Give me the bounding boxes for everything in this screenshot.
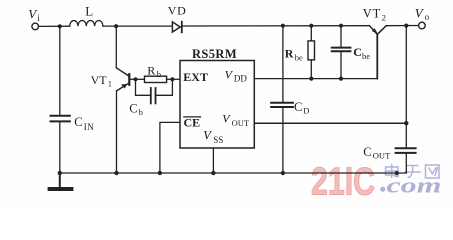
node junction at Cbe column <box>339 24 343 28</box>
node junction at CD column <box>281 24 285 28</box>
pin EXT label <box>183 70 208 84</box>
label Vi <box>28 6 40 23</box>
node junction ground right <box>395 171 399 175</box>
resistor Rbe <box>308 28 315 79</box>
node junction ground CIN <box>58 171 62 175</box>
svg-text:DD: DD <box>234 73 247 83</box>
node junction Rb left <box>133 77 137 81</box>
svg-text:VD: VD <box>168 3 187 17</box>
label CIN <box>74 115 94 132</box>
wire VOUT pin line to output column <box>254 122 406 124</box>
label L <box>85 4 93 19</box>
svg-text:RS5RM: RS5RM <box>192 47 237 61</box>
capacitor CIN <box>51 28 70 173</box>
diode VD <box>172 22 181 33</box>
svg-text:o: o <box>425 12 430 22</box>
svg-text:C: C <box>353 45 362 59</box>
wire rail: inductor to diode <box>103 25 172 27</box>
svg-text:VT: VT <box>91 73 108 87</box>
svg-text:be: be <box>295 53 303 63</box>
label CD <box>294 100 309 116</box>
label RS5RM <box>192 47 237 61</box>
svg-text:C: C <box>74 115 82 129</box>
terminal Vo <box>419 22 426 29</box>
node junction Rbe bottom <box>309 77 313 81</box>
svg-text:1: 1 <box>108 80 112 89</box>
transistor VT1 <box>116 28 129 173</box>
svg-text:2: 2 <box>382 12 386 22</box>
label VT1 <box>91 73 112 89</box>
svg-text:C: C <box>129 101 137 115</box>
node junction ground VT1 <box>114 171 118 175</box>
node junction at output column <box>404 24 408 28</box>
label Rb <box>147 63 161 79</box>
node junction at CIN column <box>58 24 62 28</box>
svg-text:21IC: 21IC <box>311 161 375 204</box>
node junction VOUT at output column <box>404 121 408 125</box>
wire CE pin to ground <box>160 122 180 173</box>
pin CE label with overline <box>184 116 201 130</box>
svg-text:b: b <box>157 69 161 79</box>
capacitor COUT <box>396 148 416 173</box>
node junction Rb right <box>170 77 174 81</box>
svg-text:OUT: OUT <box>373 151 391 161</box>
node junction ground CE <box>158 171 162 175</box>
capacitor Cb <box>136 79 173 103</box>
label Cb <box>129 101 143 117</box>
node junction at VT1 collector column <box>114 24 118 28</box>
watermark chinese 电子网 <box>386 164 440 178</box>
pin VSS label <box>203 128 223 145</box>
watermark 21IC.com logo <box>311 161 442 204</box>
wire ground bus <box>60 172 407 174</box>
pin VDD label <box>225 67 248 83</box>
wire output column <box>405 28 407 148</box>
wire rail: diode to VT2 emitter <box>182 25 370 27</box>
svg-text:C: C <box>294 100 302 114</box>
wire VDD pin line to VT2 base <box>254 78 377 80</box>
svg-text:SS: SS <box>213 135 223 145</box>
wire VSS pin to ground <box>212 148 214 173</box>
svg-text:IN: IN <box>84 122 95 132</box>
svg-text:D: D <box>303 106 309 116</box>
capacitor Cbe <box>332 28 351 79</box>
capacitor CD <box>271 28 293 173</box>
svg-text:R: R <box>147 63 155 77</box>
label COUT <box>363 145 391 161</box>
node junction at Rbe column <box>309 24 313 28</box>
wire top rail left: Vi to inductor <box>39 25 70 27</box>
svg-text:L: L <box>85 4 93 19</box>
terminal Vi <box>32 23 39 30</box>
node junction Cbe bottom <box>339 77 343 81</box>
wire Rb right to EXT pin <box>167 78 180 80</box>
node junction ground VSS <box>211 171 215 175</box>
ground <box>50 173 72 189</box>
transistor VT2 <box>370 26 387 79</box>
svg-text:be: be <box>362 51 370 61</box>
label Rbe <box>285 47 303 63</box>
svg-text:C: C <box>363 145 371 159</box>
svg-text:EXT: EXT <box>183 70 208 84</box>
label Vo <box>415 5 430 22</box>
wire VT1 base to Rb node <box>130 78 144 80</box>
inductor L <box>70 20 103 26</box>
IC U1 RS5RM box <box>180 61 254 149</box>
wire rail right: VT2 collector to Vo <box>386 25 418 27</box>
svg-text:CE: CE <box>184 116 201 130</box>
label Cbe <box>353 45 370 61</box>
label VT2 <box>363 6 386 22</box>
label VD <box>168 3 187 17</box>
svg-text:com: com <box>387 173 442 198</box>
resistor Rb <box>145 76 167 82</box>
node junction ground CD <box>281 171 285 175</box>
svg-text:R: R <box>285 47 294 61</box>
watermark .com <box>380 187 385 192</box>
svg-text:VT: VT <box>363 6 381 20</box>
svg-text:i: i <box>37 13 40 23</box>
svg-text:b: b <box>139 107 143 117</box>
svg-text:V: V <box>415 5 425 20</box>
pin VOUT label <box>222 112 250 129</box>
svg-text:OUT: OUT <box>232 118 250 128</box>
